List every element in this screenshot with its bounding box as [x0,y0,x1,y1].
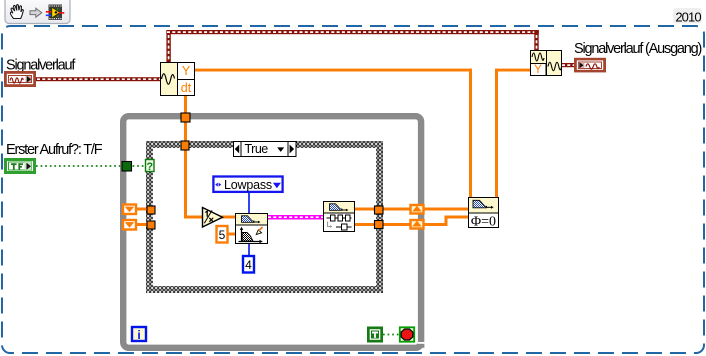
filter design block (DFD Classical Filter Design) [236,214,268,244]
svg-text:i: i [137,328,140,342]
constant 4 [243,256,254,273]
wire: boolean dotted TF to case selector (green) [36,165,146,167]
build waveform block [530,50,562,76]
hand tool icon [10,5,23,19]
while loop border [123,116,424,348]
wire: constant 5 to filter design (orange) [228,233,236,236]
svg-text:dt: dt [181,81,192,95]
wire: constant 4 to filter design (blue) [248,244,250,256]
wire: build waveform to indicator (dark red dashed) [562,63,575,67]
wire: derivative dt output down into loop (orange) [184,96,187,217]
waveform control terminal Signalverlauf [4,71,36,87]
stop button terminal [400,327,414,341]
svg-text:True: True [245,142,269,156]
tunnel: case right upper orange [375,206,384,214]
wire: down into build waveform (dark red dashed) [534,30,538,51]
wire: top horizontal to build waveform (dark red dashed) [166,30,538,34]
tunnel: case left upper orange [147,206,155,214]
svg-text:Lowpass: Lowpass [224,178,272,192]
svg-text:Y: Y [182,64,191,78]
svg-text:Signalverlauf (Ausgang): Signalverlauf (Ausgang) [574,41,702,57]
tunnel: case left lower orange [147,221,155,229]
tunnel: case top orange [181,141,189,150]
DFD filtering block [324,202,355,232]
wire: DFD filtering lower output (orange) [354,223,448,226]
case selector label True [234,142,297,157]
wire: filter design to DFD filtering (magenta dashed) [268,215,324,220]
wire: waveform control to derivative (dark red dashed) [36,77,161,81]
shift register right upper [411,205,424,214]
wire: reciprocal to filter design (orange) [221,216,236,219]
tunnel: case right lower orange [375,221,384,229]
case structure checkered border [146,141,383,293]
shift register left upper [123,205,136,215]
shift register right lower [411,220,424,229]
svg-text:5: 5 [219,228,226,242]
svg-text:Y: Y [534,64,542,76]
tunnel: loop left green (boolean) [122,162,132,172]
waveform indicator terminal Signalverlauf (Ausgang) [574,58,606,73]
toolbar [5,0,70,24]
enum constant Lowpass [213,177,282,192]
svg-text:Φ=0: Φ=0 [471,215,496,230]
arrow tool icon [30,8,42,17]
svg-text:Erster Aufruf?: T/F: Erster Aufruf?: T/F [6,142,103,158]
wire: DFD filtering upper output to phase0 (orange) [354,208,468,211]
boolean control terminal TF [6,160,35,173]
2010 version tab [673,8,702,24]
wire: left shift register stubs (orange) [134,208,150,211]
wire: enum to filter design (blue) [248,193,250,214]
svg-text:?: ? [146,161,153,173]
constant 5 [217,226,228,243]
boolean constant T [367,327,383,343]
shift register left lower [123,220,136,230]
svg-text:2010: 2010 [675,10,701,25]
zero phase filter block [469,198,499,230]
VI snippet icon [46,5,65,21]
wire: derivative Y output (orange) [195,69,472,72]
tunnel: loop top orange [181,113,190,122]
wire: branch up from derivative (dark red dashed) [166,30,170,62]
iteration terminal i [132,327,146,342]
wire: boolean dotted T to stop (green) [383,334,399,336]
case selector ? terminal [146,160,155,173]
derivative block (Derivative x(t).vi) [161,63,196,96]
svg-text:4: 4 [245,258,252,272]
reciprocal 1/x [203,208,223,228]
wire: phase0 output up to build waveform (orange) [495,69,498,197]
